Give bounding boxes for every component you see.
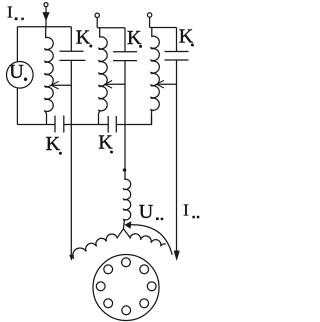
source U1 circle bbox=[6, 62, 33, 89]
capacitor K2 plates bbox=[113, 52, 137, 61]
label K2 subscript dot bbox=[139, 45, 142, 48]
wire: top horizontal bus phase 2 bbox=[97, 27, 125, 29]
svg-text:I: I bbox=[7, 3, 13, 22]
wire: phase-1 feeder stub bbox=[45, 7, 47, 27]
svg-text:U: U bbox=[9, 61, 24, 83]
wire: phase-2 feeder stub bbox=[96, 18, 98, 28]
arrow: voltage Uk curved arrow bbox=[127, 225, 172, 255]
wire: bottom bus segment A bbox=[17, 124, 55, 126]
terminal circle phase 1 bbox=[44, 3, 48, 7]
label K3 subscript dot bbox=[191, 44, 194, 47]
wire: top horizontal bus phase 1 bbox=[17, 26, 71, 28]
capacitor K3 plates bbox=[165, 52, 189, 61]
inductor L3 (variable) bbox=[151, 28, 159, 125]
svg-text:U: U bbox=[139, 201, 154, 223]
rotor bar circles bbox=[122, 258, 131, 267]
junction dot bbox=[123, 168, 127, 172]
inductor L1 (variable) bbox=[45, 27, 53, 125]
arrow: phase-1 line arrowhead at motor bbox=[70, 255, 74, 260]
wire: top horizontal bus phase 3 bbox=[150, 27, 177, 29]
arrow: L1 tap bbox=[53, 84, 72, 86]
wire: capacitor K2 branch upper bbox=[124, 28, 126, 52]
label Uk subscript marks bbox=[156, 217, 159, 220]
wire: phase-1 down-line to motor bbox=[70, 60, 72, 256]
wire: phase-2 down-line bbox=[124, 61, 126, 180]
label I1 subscript marks bbox=[15, 17, 18, 20]
capacitor K2b plates (series) bbox=[108, 116, 116, 133]
label K1b subscript dot bbox=[59, 152, 62, 155]
arrow: L3 tap bbox=[158, 83, 177, 85]
arrow: current I2 arrowhead bbox=[174, 251, 180, 261]
svg-text:I: I bbox=[183, 201, 189, 220]
motor stator circle bbox=[93, 255, 159, 321]
arrow: L2 tap bbox=[106, 83, 125, 85]
wire: left source vertical upper bbox=[16, 27, 18, 62]
terminal circle phase 3 bbox=[147, 13, 151, 17]
wire: capacitor K3 branch upper bbox=[176, 28, 178, 52]
inductor: motor feed coil bbox=[123, 179, 130, 229]
wire: phase-3 down-line bbox=[176, 60, 178, 257]
inductor L2 (variable) bbox=[99, 28, 108, 125]
wire: left source vertical lower bbox=[16, 88, 18, 124]
wire: phase-3 feeder stub bbox=[149, 17, 151, 27]
stator winding wave bbox=[73, 229, 166, 259]
svg-text:K: K bbox=[98, 132, 113, 154]
svg-text:K: K bbox=[46, 133, 61, 155]
wire: bottom bus segment B bbox=[64, 124, 108, 126]
label I2 subscript marks bbox=[192, 216, 195, 219]
capacitor K1 plates bbox=[60, 51, 86, 60]
label K2b subscript dot bbox=[110, 151, 113, 154]
svg-text:K: K bbox=[76, 27, 91, 49]
terminal circle phase 2 bbox=[95, 13, 99, 17]
capacitor K1b plates (series) bbox=[55, 116, 64, 133]
wire: bottom bus segment C bbox=[116, 116, 151, 125]
label K1 subscript dot bbox=[89, 45, 92, 48]
arrow: current I1 direction bbox=[43, 12, 50, 20]
label U1 subscript dot bbox=[24, 78, 27, 81]
wire: capacitor K1 branch upper bbox=[70, 27, 72, 52]
